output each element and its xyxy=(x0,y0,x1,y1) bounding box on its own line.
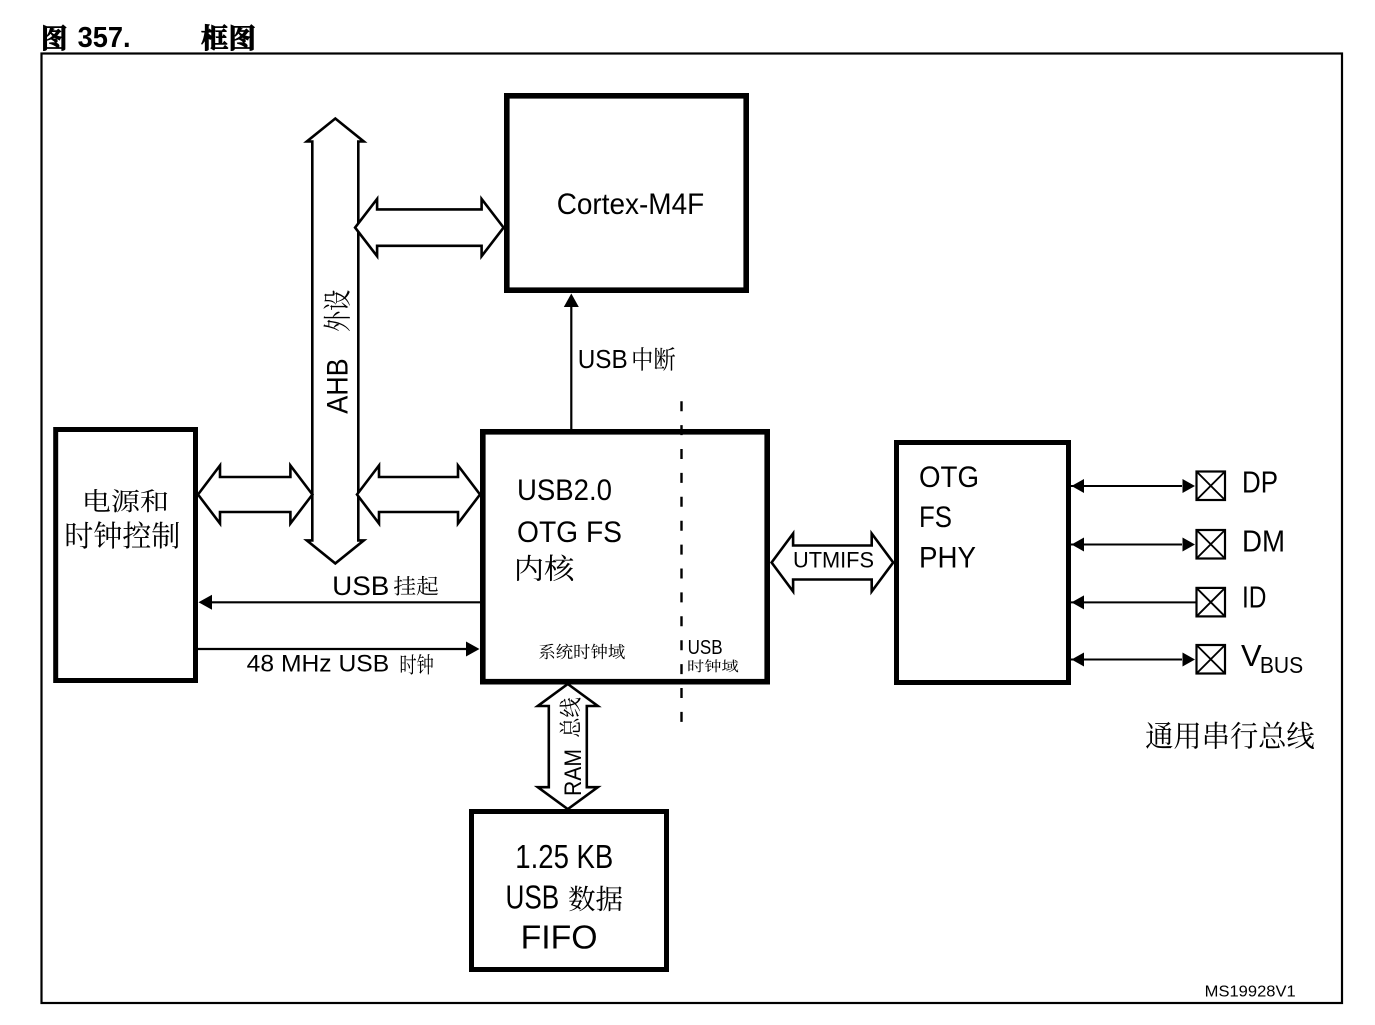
pin DP: wire, pad symbol and label xyxy=(1071,465,1278,501)
48 MHz USB clock wire 48 MHz USB 时钟 xyxy=(198,642,480,678)
pin DM: wire, pad symbol and label xyxy=(1071,524,1285,559)
USB interrupt wire USB 中断 xyxy=(564,294,675,430)
system clock domain label 系统时钟域 xyxy=(539,644,625,660)
USB suspend wire USB 挂起 xyxy=(199,571,481,610)
clock domain dashed separator xyxy=(680,401,682,722)
svg-text:V: V xyxy=(1241,638,1262,673)
svg-text:FS: FS xyxy=(919,501,952,534)
block: 1.25 KB USB data FIFO xyxy=(472,812,667,970)
pin VBUS: wire, pad symbol and label xyxy=(1071,638,1303,678)
svg-text:USB: USB xyxy=(578,344,628,374)
universal serial bus label 通用串行总线 xyxy=(1146,722,1314,750)
block: power and clock control 电源和时钟控制 xyxy=(56,430,196,681)
UTMIFS double arrow xyxy=(772,534,894,592)
svg-text:AHB: AHB xyxy=(322,358,355,414)
svg-text:USB: USB xyxy=(332,571,389,601)
svg-text:DP: DP xyxy=(1242,465,1278,500)
block: OTG FS PHY xyxy=(897,443,1069,683)
svg-text:USB: USB xyxy=(506,879,560,916)
figure title 图 357. 框图 xyxy=(44,22,255,54)
block: Cortex-M4F U1 xyxy=(507,96,746,290)
USB clock domain label USB 时钟域 xyxy=(688,637,739,672)
svg-text:PHY: PHY xyxy=(919,542,976,575)
svg-text:UTMIFS: UTMIFS xyxy=(793,548,874,573)
svg-text:ID: ID xyxy=(1242,580,1267,615)
svg-text:48 MHz USB: 48 MHz USB xyxy=(247,651,390,678)
svg-text:OTG: OTG xyxy=(919,461,979,494)
RAM bus double arrow RAM 总线 xyxy=(538,684,598,809)
double arrow: AHB to USB core xyxy=(357,466,480,524)
svg-text:DM: DM xyxy=(1242,524,1285,559)
svg-text:OTG FS: OTG FS xyxy=(517,516,622,549)
svg-text:357.: 357. xyxy=(78,22,131,54)
double arrow: power block to AHB xyxy=(198,466,312,524)
pin ID: wire, pad symbol and label xyxy=(1071,580,1267,617)
svg-text:1.25 KB: 1.25 KB xyxy=(515,838,613,875)
svg-text:FIFO: FIFO xyxy=(521,919,598,956)
AHB peripheral bus double arrow AHB 外设 xyxy=(307,119,364,564)
svg-text:RAM: RAM xyxy=(560,749,587,796)
svg-text:USB: USB xyxy=(688,637,723,659)
svg-text:Cortex-M4F: Cortex-M4F xyxy=(557,188,705,221)
double arrow: AHB to Cortex-M4F xyxy=(355,199,504,256)
block: USB2.0 OTG FS core 内核 xyxy=(483,432,767,682)
svg-text:USB2.0: USB2.0 xyxy=(517,474,612,507)
svg-text:BUS: BUS xyxy=(1260,652,1303,678)
svg-text:MS19928V1: MS19928V1 xyxy=(1205,984,1296,1001)
